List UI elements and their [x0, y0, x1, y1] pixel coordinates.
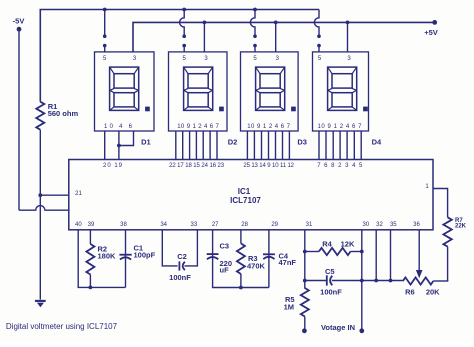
- capacitor C1: [119, 254, 131, 256]
- wire D3 segment line to IC: [261, 131, 263, 160]
- svg-text:39: 39: [88, 222, 95, 228]
- svg-text:D2: D2: [228, 137, 238, 146]
- capacitor C2: [178, 261, 180, 270]
- wire IC pin32 down: [375, 230, 377, 281]
- display D2: [169, 52, 228, 131]
- wire display pin3 drop: [347, 22, 349, 52]
- node junction on bus A: [253, 8, 257, 12]
- wire D4 segment line to IC: [339, 131, 341, 160]
- svg-text:12K: 12K: [341, 239, 355, 248]
- wire D2 segment line to IC: [216, 131, 218, 160]
- wire R7 to R6: [447, 247, 449, 281]
- wire DP jumper D4 (bus A corner, hops bus B): [314, 10, 319, 37]
- node junction on bus A: [182, 8, 186, 12]
- wire D4 segment line to IC: [325, 131, 327, 160]
- wire display pin3 drop: [203, 22, 205, 52]
- wire top bus A (decimal point bus): [40, 10, 319, 102]
- display D3: [241, 52, 299, 131]
- wire DP jumper (hops bus B): [180, 10, 185, 37]
- wire D2 segment line to IC: [202, 131, 204, 160]
- wire D4 segment line to IC: [360, 131, 362, 160]
- svg-text:R4: R4: [322, 239, 332, 248]
- wire IC pin40 down to rail: [78, 230, 125, 288]
- svg-text:uF: uF: [220, 266, 230, 275]
- wire display pin3 drop: [275, 22, 277, 52]
- svg-text:1M: 1M: [284, 302, 294, 311]
- svg-text:32: 32: [376, 222, 383, 228]
- node pin35 junction: [389, 279, 393, 283]
- wire IC pin31 down: [304, 230, 306, 288]
- node voltage input terminal right: [359, 328, 364, 333]
- -5V terminal: [17, 27, 22, 32]
- svg-text:40: 40: [75, 222, 82, 228]
- +5V terminal: [432, 20, 437, 25]
- wire D4 segment line to IC: [318, 131, 320, 160]
- svg-text:C2: C2: [177, 252, 187, 261]
- ground: [35, 300, 46, 302]
- wire D2 segment line to IC: [195, 131, 197, 160]
- svg-text:22 17 18 15 24 16 23: 22 17 18 15 24 16 23: [169, 163, 225, 169]
- wire D4 segment line to IC: [353, 131, 355, 160]
- svg-text:34: 34: [160, 222, 167, 228]
- node junction on bus A: [103, 8, 107, 12]
- svg-text:22K: 22K: [455, 224, 467, 230]
- resistor R4: [305, 251, 319, 253]
- wire R1 to ground: [39, 130, 41, 300]
- wire D4 segment line to IC: [332, 131, 334, 160]
- resistor R3: [237, 243, 245, 274]
- capacitor C4: [268, 254, 270, 287]
- node junction on bus B: [274, 21, 278, 25]
- op-amp U1 : IC1 ICL7107 body: [69, 160, 433, 230]
- resistor R1: [36, 102, 44, 130]
- wire D3 segment line to IC: [275, 131, 277, 160]
- wire D3 segment line to IC: [288, 131, 290, 160]
- wire DP jumper: [104, 10, 106, 37]
- svg-text:28: 28: [241, 222, 248, 228]
- svg-text:D4: D4: [372, 137, 382, 146]
- wire IC pin21 stub: [40, 194, 69, 196]
- svg-text:36: 36: [413, 222, 420, 228]
- node C5 left junction: [303, 279, 307, 283]
- wire D2 segment line to IC: [209, 131, 211, 160]
- resistor R5: [304, 287, 306, 290]
- svg-text:C5: C5: [325, 267, 335, 276]
- wire D1 pin4 to IC pin19: [118, 131, 120, 160]
- svg-text:30: 30: [363, 222, 370, 228]
- wire D3 segment line to IC: [268, 131, 270, 160]
- svg-text:31: 31: [306, 222, 313, 228]
- wire DP jumper (hops bus B): [250, 10, 255, 37]
- svg-text:R6: R6: [405, 287, 415, 296]
- wire D2 segment line to IC: [189, 131, 191, 160]
- svg-text:+5V: +5V: [424, 28, 438, 37]
- svg-text:100nF: 100nF: [169, 273, 191, 282]
- wire D4 segment line to IC: [346, 131, 348, 160]
- node pin32 junction: [374, 279, 378, 283]
- wire top bus B (+5V bus): [133, 22, 435, 52]
- wire IC pin1 to R7: [433, 189, 448, 218]
- wire D3 segment line to IC: [282, 131, 284, 160]
- svg-text:25 13 14 9 10 11 12: 25 13 14 9 10 11 12: [243, 163, 294, 169]
- wire C4 to IC pin29: [268, 230, 270, 255]
- capacitor C3: [207, 253, 219, 255]
- node R4 right junction: [360, 250, 364, 254]
- wire D3 segment line to IC: [246, 131, 248, 160]
- node junction on bus B: [346, 21, 350, 25]
- svg-text:560 ohm: 560 ohm: [48, 109, 79, 118]
- wire D3 segment line to IC: [253, 131, 255, 160]
- capacitor C5: [305, 280, 327, 282]
- svg-text:10 9 1 2 4 6 7: 10 9 1 2 4 6 7: [177, 124, 219, 130]
- wire -5V rail down left side: [18, 29, 20, 210]
- wire D1 pin10 to IC pin20: [104, 131, 106, 160]
- svg-text:38: 38: [120, 222, 127, 228]
- node pin30/C5 junction: [360, 279, 364, 283]
- svg-text:47nF: 47nF: [279, 258, 297, 267]
- svg-text:D1: D1: [141, 137, 151, 146]
- svg-text:470K: 470K: [247, 262, 266, 271]
- svg-text:100nF: 100nF: [320, 288, 342, 297]
- svg-text:7 6 8 2 3 4 5: 7 6 8 2 3 4 5: [317, 163, 363, 169]
- svg-text:C3: C3: [220, 242, 230, 251]
- wire IC pin27 to C3: [212, 230, 214, 254]
- svg-text:21: 21: [75, 191, 82, 197]
- node R4 left junction: [303, 250, 307, 254]
- svg-text:180K: 180K: [98, 251, 117, 260]
- wire IC pin30 down to input terminal: [361, 230, 363, 331]
- wire IC pin36 to R6 wiper: [418, 230, 420, 271]
- node D1 pin4/6 junction: [117, 144, 121, 148]
- wire D2 segment line to IC: [175, 131, 177, 160]
- wire D2 segment line to IC: [182, 131, 184, 160]
- display D4: [313, 52, 369, 131]
- svg-text:Votage IN: Votage IN: [321, 323, 355, 332]
- potentiometer R6: [403, 277, 433, 284]
- resistor R2: [86, 244, 94, 275]
- wire IC pin34 to C2: [162, 230, 177, 266]
- node voltage input terminal left: [302, 328, 307, 333]
- svg-text:35: 35: [390, 222, 397, 228]
- wire D1 pin6 joins pin4: [119, 131, 134, 146]
- svg-text:IC1: IC1: [238, 187, 251, 196]
- svg-text:-5V: -5V: [13, 17, 25, 26]
- svg-text:20 19: 20 19: [103, 163, 123, 169]
- svg-text:29: 29: [271, 222, 278, 228]
- wire C5 to R6: [332, 280, 403, 282]
- wire IC pin28 to R3: [240, 230, 242, 244]
- svg-text:10 9 1 2 4 6 7: 10 9 1 2 4 6 7: [318, 124, 363, 130]
- node pin21 junction: [38, 193, 42, 197]
- svg-text:D3: D3: [297, 137, 307, 146]
- node R2 bottom junction: [89, 286, 93, 290]
- node R3 bottom junction: [239, 286, 243, 290]
- wire IC pin38 to C1: [125, 230, 127, 288]
- wire IC pin39 to R2: [89, 230, 91, 244]
- svg-text:100pF: 100pF: [134, 251, 156, 260]
- svg-text:10 9 1 2 4 6 7: 10 9 1 2 4 6 7: [247, 124, 290, 130]
- wire C2 to IC pin33: [184, 230, 197, 266]
- svg-text:27: 27: [212, 222, 219, 228]
- svg-text:Digital voltmeter using ICL710: Digital voltmeter using ICL7107: [6, 322, 118, 331]
- wire IC pin35 down: [390, 230, 392, 281]
- svg-text:20K: 20K: [426, 287, 440, 296]
- display D1: [95, 52, 155, 131]
- wire -5V to IC pin26 stub (hops over ground rail): [19, 206, 69, 211]
- node junction on bus B: [203, 21, 207, 25]
- resistor R7: [443, 217, 451, 246]
- wire C3 down to rail 2: [213, 254, 269, 287]
- svg-text:33: 33: [191, 222, 198, 228]
- svg-text:ICL7107: ICL7107: [230, 196, 261, 205]
